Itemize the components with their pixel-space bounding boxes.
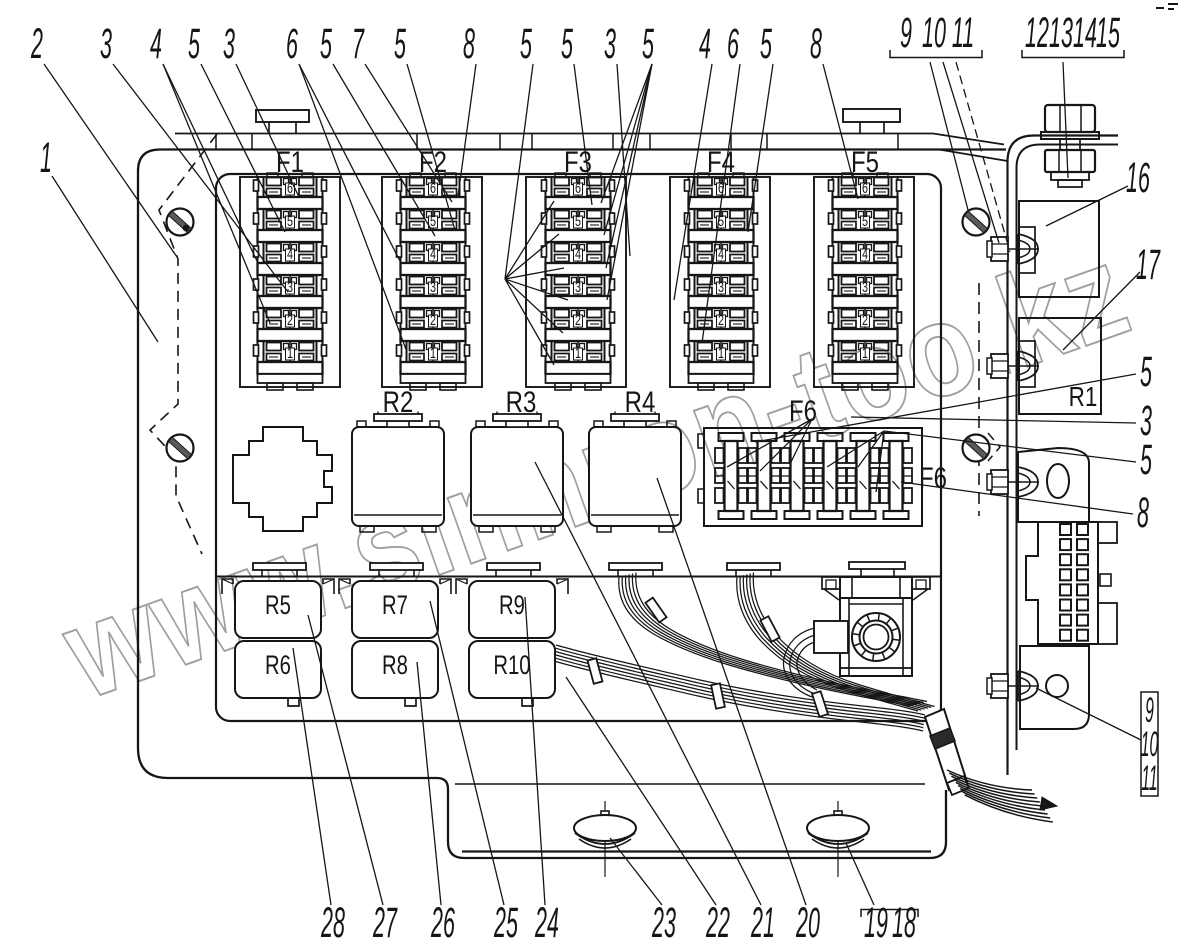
svg-text:R6: R6 [265,650,291,681]
bracket dashed outline left [150,134,217,554]
fuse block F4 [670,177,770,387]
svg-text:25: 25 [493,899,518,947]
callout box 9 10 11 right [1141,692,1158,796]
housing fold line [455,783,925,785]
svg-text:8: 8 [463,20,475,68]
svg-text:5: 5 [188,20,200,68]
mounting flange [1008,136,1119,776]
rivet 1 [987,234,1039,264]
svg-text:9: 9 [900,9,912,57]
buzzer tab [849,562,905,569]
buzzer side box [814,621,848,653]
wire bundle C [556,645,925,715]
watermark www.sinhron-too.kz [46,217,1147,728]
svg-text:3: 3 [604,20,616,68]
fan from 5 to F3 fuses [505,201,554,279]
svg-text:1: 1 [40,134,52,182]
fuse box housing outline [138,150,1006,859]
bracket 19 18 [861,910,918,918]
svg-text:4: 4 [150,20,162,68]
plate with round hole [1020,646,1089,729]
svg-text:F6: F6 [789,393,817,427]
mounting tab top right [843,109,900,122]
connector socket [1026,522,1098,644]
svg-text:R9: R9 [499,590,525,621]
svg-text:28: 28 [320,899,345,947]
svg-text:5: 5 [520,20,532,68]
wire clips [645,598,666,623]
housing top rail [175,134,1004,145]
housing bottom inner edge [462,850,931,852]
relay R8 [352,641,438,698]
callout 6 second leader [299,64,407,352]
svg-text:10: 10 [922,9,946,57]
relay R4 [589,412,681,533]
relay R2 [352,412,444,533]
fan from 5(648) to F3 right [601,64,652,203]
svg-text:F2: F2 [419,144,447,178]
svg-text:R5: R5 [265,590,291,621]
harness conduit [925,712,940,719]
svg-text:F4: F4 [707,144,735,178]
svg-text:3: 3 [223,20,235,68]
relay tray edge [216,576,940,578]
fuse block F1 [240,177,340,387]
callout 4 second leader [163,64,270,323]
fuse block F5 [814,177,914,387]
screw top left [167,209,194,236]
relay R10 [469,641,555,698]
relay R6 [235,641,321,698]
svg-text:18: 18 [892,899,916,947]
relay R1 [1019,318,1101,414]
buzzer body [840,598,912,676]
svg-text:6: 6 [727,20,739,68]
svg-text:R1: R1 [1069,382,1098,413]
svg-text:5: 5 [642,20,654,68]
relay R7 [352,581,438,638]
svg-text:11: 11 [1141,758,1157,798]
svg-text:F6: F6 [919,460,947,494]
rivet 3 [987,467,1039,497]
svg-text:7: 7 [352,20,365,68]
svg-text:12: 12 [1025,9,1049,57]
fuse block F2 [382,177,482,387]
svg-text:5: 5 [1140,436,1152,484]
svg-text:5: 5 [320,20,332,68]
bolt 12-15 [1041,105,1099,187]
svg-text:19: 19 [864,899,888,947]
svg-text:17: 17 [1136,241,1161,289]
main top edge right slope [939,150,1008,162]
wire bundle D (buzzer leads) [783,628,815,697]
fuse block F3 [526,177,626,387]
svg-text:5: 5 [561,20,573,68]
wire bundle A [619,577,910,706]
mounting tab top left [256,110,309,122]
svg-text:22: 22 [705,899,730,947]
svg-text:2: 2 [30,20,43,68]
svg-text:14: 14 [1073,9,1097,57]
relay R5 [235,581,321,638]
bracket dashed outline right [978,283,980,516]
block 16 [1019,201,1099,297]
tray tabs [253,563,306,577]
svg-text:F1: F1 [276,144,304,178]
screw bottom right [963,435,990,462]
rivet 2 [987,351,1039,381]
svg-text:R7: R7 [382,590,408,621]
svg-text:21: 21 [750,899,775,947]
svg-text:24: 24 [534,899,559,947]
svg-text:16: 16 [1126,154,1150,202]
svg-text:4: 4 [699,20,711,68]
svg-text:8: 8 [1137,489,1149,537]
F6 label leaders [727,419,812,467]
watermark corner mark [1156,4,1178,9]
svg-text:R2: R2 [383,384,414,418]
svg-text:R3: R3 [506,384,537,418]
rivet 4 [987,671,1039,701]
fuse block F6 [704,428,922,526]
svg-text:F5: F5 [851,144,879,178]
svg-text:6: 6 [286,20,298,68]
svg-text:20: 20 [795,899,820,947]
svg-text:27: 27 [372,899,397,947]
buzzer ring [852,613,900,661]
inner panel [216,174,941,721]
screw top right [963,209,990,236]
svg-text:23: 23 [651,899,676,947]
svg-text:13: 13 [1049,9,1073,57]
screw bottom left [167,435,194,462]
grommet right [807,801,869,877]
cross connector [233,427,332,531]
svg-text:26: 26 [430,899,455,947]
svg-text:5: 5 [1140,348,1152,396]
harness exit fan [947,770,1032,790]
buzzer bracket [840,577,912,598]
svg-text:R8: R8 [382,650,408,681]
relay R9 [469,581,555,638]
grommet left (19/18 style) [574,801,636,877]
svg-text:5: 5 [760,20,772,68]
wire bundle B [737,577,918,711]
svg-text:R4: R4 [625,384,656,418]
relay R3 [471,412,563,533]
svg-text:8: 8 [810,20,822,68]
svg-text:15: 15 [1096,9,1120,57]
svg-text:11: 11 [952,9,974,57]
plate with oval hole [1018,448,1089,522]
svg-text:3: 3 [100,20,112,68]
svg-text:R10: R10 [493,650,530,681]
svg-text:5: 5 [394,20,406,68]
